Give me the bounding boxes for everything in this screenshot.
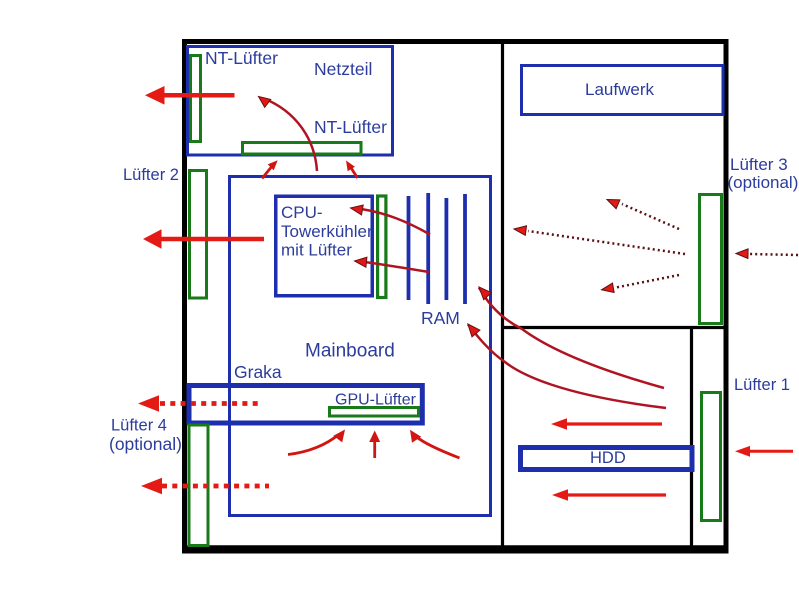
svg-text:Lüfter 3: Lüfter 3 bbox=[730, 155, 788, 174]
svg-text:Graka: Graka bbox=[234, 362, 282, 382]
svg-text:Towerkühler: Towerkühler bbox=[281, 222, 373, 241]
svg-text:NT-Lüfter: NT-Lüfter bbox=[314, 117, 387, 137]
svg-text:(optional): (optional) bbox=[728, 173, 799, 192]
svg-text:Mainboard: Mainboard bbox=[305, 341, 395, 362]
svg-text:Lüfter 2: Lüfter 2 bbox=[123, 166, 179, 184]
svg-text:mit Lüfter: mit Lüfter bbox=[281, 241, 352, 260]
svg-text:Netzteil: Netzteil bbox=[314, 59, 372, 79]
svg-text:CPU-: CPU- bbox=[281, 203, 323, 222]
svg-text:Lüfter 4: Lüfter 4 bbox=[111, 417, 167, 435]
svg-text:RAM: RAM bbox=[421, 308, 460, 328]
svg-text:Laufwerk: Laufwerk bbox=[585, 80, 654, 99]
svg-text:GPU-Lüfter: GPU-Lüfter bbox=[335, 392, 417, 409]
svg-text:NT-Lüfter: NT-Lüfter bbox=[205, 48, 278, 68]
svg-text:(optional): (optional) bbox=[109, 434, 182, 454]
svg-text:HDD: HDD bbox=[590, 449, 626, 467]
svg-text:Lüfter 1: Lüfter 1 bbox=[734, 376, 790, 394]
